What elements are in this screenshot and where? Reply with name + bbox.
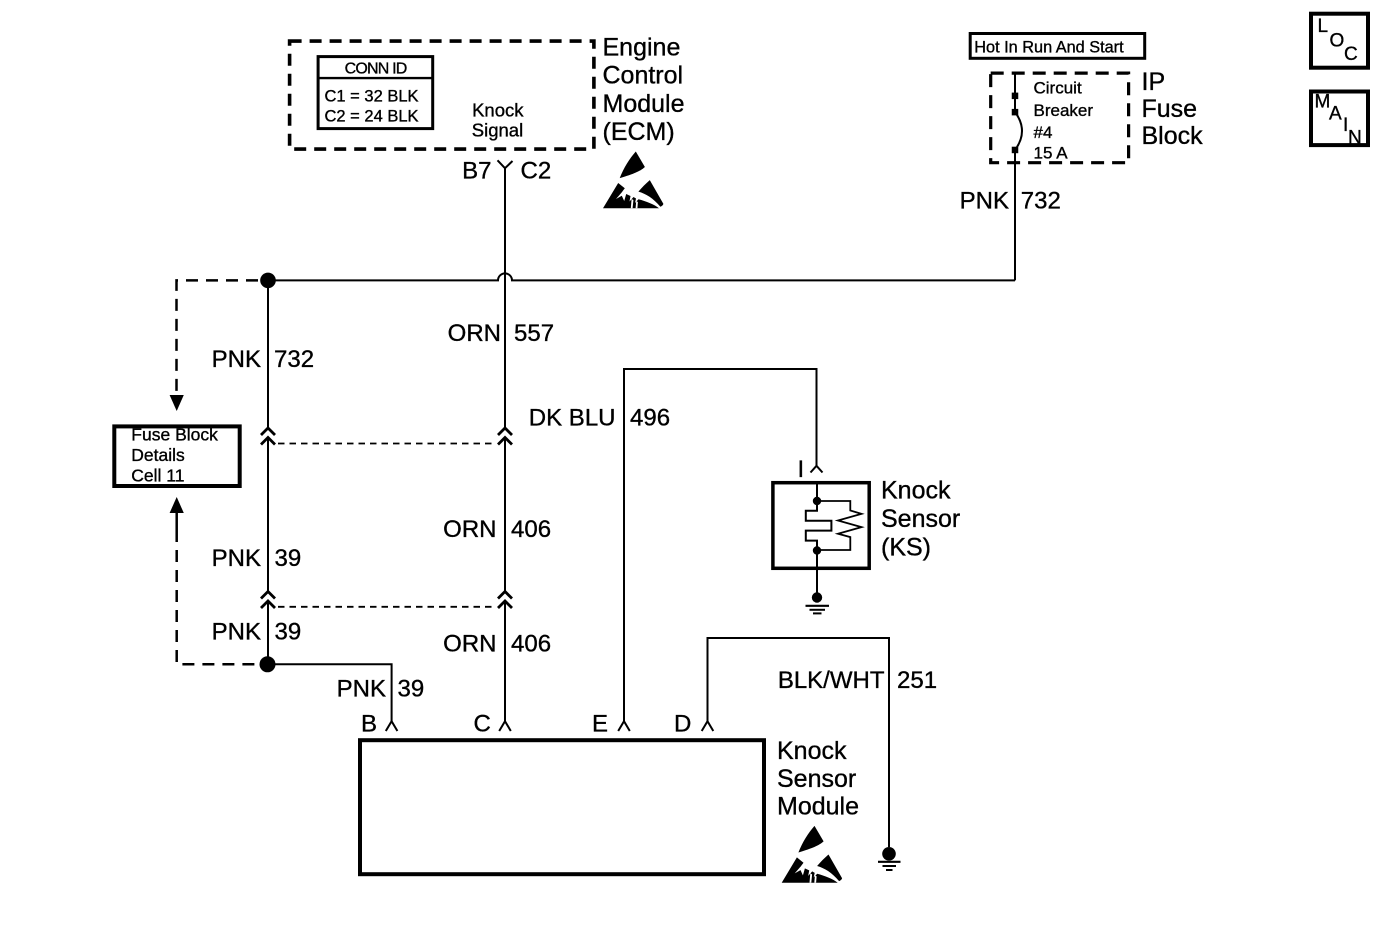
svg-text:A: A: [1329, 104, 1342, 125]
svg-text:Circuit: Circuit: [1034, 78, 1082, 97]
svg-text:C2: C2: [521, 158, 552, 185]
KS internal resistor: [817, 501, 862, 550]
svg-text:PNK: PNK: [212, 545, 261, 572]
svg-text:BLK/WHT: BLK/WHT: [778, 667, 885, 694]
svg-text:496: 496: [630, 404, 670, 431]
svg-text:ORN: ORN: [448, 320, 501, 347]
svg-text:251: 251: [897, 667, 937, 694]
svg-text:PNK: PNK: [960, 188, 1009, 215]
svg-text:C: C: [474, 711, 491, 738]
KS internal node top: [813, 497, 821, 505]
svg-text:Sensor: Sensor: [777, 765, 856, 793]
junction node (PNK 39 splice): [260, 656, 276, 672]
wire ORN 557 from ECM pin down to inline connector: [504, 168, 506, 428]
knock sensor KS box: [773, 483, 869, 569]
svg-text:39: 39: [398, 675, 425, 702]
svg-text:39: 39: [275, 619, 302, 646]
svg-text:39: 39: [275, 545, 302, 572]
circuit breaker terminal square 1: [1012, 93, 1019, 100]
ground symbol (BLK/WHT 251): [882, 847, 896, 861]
inline connector chevrons on PNK wire (lower): [261, 592, 275, 599]
knock sensor module box: [360, 740, 764, 874]
svg-text:DK BLU: DK BLU: [529, 404, 616, 431]
svg-text:Knock: Knock: [881, 477, 951, 505]
svg-text:Knock: Knock: [472, 100, 524, 121]
terminal I connector symbol: [811, 466, 823, 473]
svg-text:Sensor: Sensor: [881, 505, 960, 533]
terminal B connector symbol: [386, 721, 398, 731]
KS wire to ground: [816, 551, 818, 594]
svg-text:C2 = 24 BLK: C2 = 24 BLK: [325, 108, 419, 126]
svg-text:(ECM): (ECM): [603, 118, 675, 146]
wire DK BLU 496 from terminal E to knock sensor: [624, 369, 817, 721]
circuit breaker arc element: [1015, 112, 1022, 150]
svg-text:ORN: ORN: [443, 516, 496, 543]
up arrowhead: [170, 497, 184, 513]
svg-text:406: 406: [511, 516, 551, 543]
ESD static-sensitive symbol (ECM): [603, 152, 663, 209]
svg-text:L: L: [1318, 16, 1329, 37]
svg-text:Details: Details: [131, 445, 185, 465]
svg-text:Engine: Engine: [603, 33, 681, 61]
ESD static-sensitive symbol (Knock Sensor Module): [782, 826, 842, 883]
circuit breaker #4 wire top lead: [1014, 72, 1016, 113]
svg-text:C: C: [1344, 44, 1358, 65]
CONN ID table box: [318, 57, 433, 129]
svg-text:Cell 11: Cell 11: [131, 466, 184, 486]
svg-text:B: B: [361, 711, 377, 738]
svg-text:732: 732: [274, 346, 314, 373]
dashed reference line to fuse block details (top): [177, 280, 259, 391]
KS ground symbol: [812, 592, 822, 602]
svg-text:Block: Block: [1142, 122, 1204, 150]
wire ORN 406 (middle segment): [504, 438, 506, 592]
bus wire PNK 732 horizontal with hop over ORN 557: [268, 273, 1015, 280]
terminal E connector symbol: [618, 721, 630, 731]
inline connector chevrons on PNK wire (upper): [261, 428, 275, 435]
svg-text:IP: IP: [1142, 68, 1166, 96]
ECM module dashed box: [290, 41, 594, 149]
IP fuse block dashed box: [991, 73, 1129, 163]
terminal C connector symbol: [499, 721, 511, 731]
wire BLK/WHT 251 from terminal D to ground: [708, 638, 890, 847]
svg-text:Signal: Signal: [472, 120, 523, 141]
svg-text:Fuse: Fuse: [1142, 95, 1198, 123]
svg-text:ORN: ORN: [443, 630, 496, 657]
KS internal node bottom: [813, 546, 821, 554]
svg-text:C1 = 32 BLK: C1 = 32 BLK: [325, 88, 419, 106]
circuit breaker terminal square 3: [1012, 147, 1019, 154]
svg-text:Control: Control: [603, 62, 684, 90]
svg-text:557: 557: [514, 320, 554, 347]
svg-text:15 A: 15 A: [1034, 144, 1069, 163]
wire PNK 39 (middle segment): [267, 438, 269, 592]
wire PNK 732 from circuit breaker down: [1014, 150, 1016, 280]
dashed reference line from PNK 39 splice (bottom): [175, 513, 178, 530]
circuit breaker terminal square 2: [1012, 109, 1019, 116]
svg-text:Knock: Knock: [777, 737, 847, 765]
power feed box Hot In Run And Start: [970, 34, 1144, 59]
inline connector dashed tie (lower): [278, 606, 496, 608]
KS internal wire top: [816, 482, 818, 502]
svg-text:CONN ID: CONN ID: [345, 61, 407, 78]
wire ORN 406 to terminal C: [504, 601, 506, 721]
svg-text:O: O: [1330, 31, 1345, 52]
svg-text:PNK: PNK: [337, 675, 386, 702]
svg-text:N: N: [1348, 128, 1362, 149]
wire PNK 39 (lower segment): [267, 601, 269, 664]
svg-text:E: E: [592, 711, 608, 738]
down arrowhead: [170, 395, 184, 411]
inline connector dashed tie (upper): [278, 443, 496, 445]
inline connector chevrons on ORN wire (lower): [498, 592, 512, 599]
svg-text:Hot In Run And Start: Hot In Run And Start: [974, 38, 1124, 56]
svg-text:Fuse Block: Fuse Block: [131, 425, 218, 445]
LOC legend box: [1311, 14, 1368, 68]
terminal D connector symbol: [702, 721, 714, 731]
svg-text:PNK: PNK: [212, 619, 261, 646]
wire PNK 39 to terminal B: [268, 664, 392, 721]
inline connector chevrons on ORN wire (upper): [498, 428, 512, 435]
svg-text:Module: Module: [603, 90, 685, 118]
Fuse Block Details Cell 11 box: [114, 426, 239, 486]
CONN ID table divider: [318, 77, 433, 79]
junction node (PNK 732 splice): [260, 273, 276, 289]
svg-text:PNK: PNK: [212, 346, 261, 373]
KS piezo element meander: [806, 501, 832, 551]
svg-text:732: 732: [1021, 188, 1061, 215]
svg-text:(KS): (KS): [881, 534, 931, 562]
svg-text:406: 406: [511, 630, 551, 657]
svg-text:D: D: [674, 711, 691, 738]
wire PNK 732 vertical: [267, 280, 269, 427]
connector symbol at ECM pin B7/C2: [498, 160, 513, 168]
svg-text:M: M: [1315, 92, 1331, 113]
svg-text:#4: #4: [1034, 123, 1053, 142]
svg-text:Breaker: Breaker: [1034, 101, 1094, 120]
svg-text:I: I: [798, 456, 805, 483]
svg-text:Module: Module: [777, 793, 859, 821]
svg-text:B7: B7: [462, 158, 491, 185]
MAIN legend box: [1311, 92, 1368, 146]
